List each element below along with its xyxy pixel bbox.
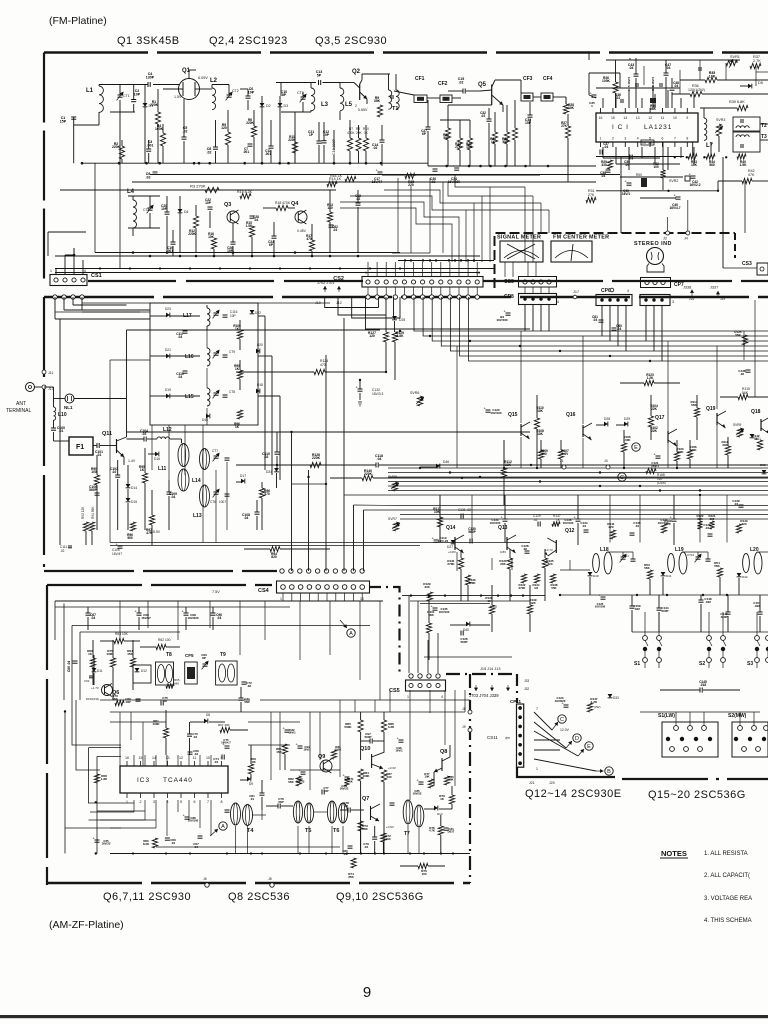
svg-text:.022: .022 [705,600,711,604]
capacitor C65 [95,839,100,841]
svg-text:220K: 220K [312,456,321,460]
resistor R15 [249,226,254,237]
svg-text:12: 12 [648,116,652,120]
svg-text:820: 820 [271,555,277,559]
capacitor C102 [115,474,120,476]
svg-text:CS3: CS3 [742,261,752,267]
svg-text:T9: T9 [220,652,226,658]
svg-text:1P: 1P [309,133,314,137]
meter enclosure box [495,233,736,288]
mid verticals to bottom [456,552,458,571]
svg-text:D24: D24 [266,470,272,474]
svg-text:16V/22: 16V/22 [296,780,305,784]
svg-text:D42: D42 [742,575,748,579]
route to CS4 [291,432,293,571]
svg-text:10K: 10K [537,409,544,413]
svg-text:16: 16 [125,756,129,760]
diode D18 [256,389,260,394]
svg-text:J703 J704 J339: J703 J704 J339 [469,693,499,698]
svg-text:16V/100: 16V/100 [496,318,508,322]
capacitor C62 [89,675,93,677]
svg-text:4: 4 [441,695,443,699]
svg-text:16V/2.2: 16V/2.2 [690,183,701,187]
svg-text:220K: 220K [112,145,121,149]
resistor R119 [725,446,730,455]
svg-text:J12: J12 [336,301,342,305]
capacitor C5 [182,136,187,138]
svg-text:CS8: CS8 [504,279,514,285]
svg-text:1.2K: 1.2K [591,700,598,704]
svg-text:2: 2 [140,800,142,804]
stereo lamp base [647,264,664,273]
shield box L15-L17 [150,303,258,425]
J9 pad [468,728,472,732]
diode D4 [178,209,183,213]
svg-text:C131 .02: C131 .02 [458,508,471,512]
svg-text:470: 470 [320,363,326,367]
resistor R32 [660,170,665,178]
capacitor C108 [255,511,260,513]
svg-text:0.65V: 0.65V [358,108,368,112]
resistors under Q5 [445,128,450,140]
svg-text:16V/100: 16V/100 [595,605,606,609]
svg-text:CT2: CT2 [232,89,239,93]
svg-text:T8: T8 [166,652,172,658]
svg-text:.02: .02 [112,470,117,474]
svg-text:L13: L13 [193,513,202,519]
middle board border bottom-left [44,570,277,572]
capacitor C71 [239,697,244,699]
resistor R12 [193,216,198,228]
resistor R25 220 [405,173,415,178]
svg-text:R62 100: R62 100 [158,638,171,642]
resistor R54 [717,568,722,577]
capacitor C72b [242,681,247,683]
connector CS1 [50,275,87,286]
svg-text:15P: 15P [60,119,67,123]
resistor R26 [613,82,618,93]
left drops [94,163,96,252]
resistor R64b [130,658,135,667]
trimmer CT2 [227,94,232,96]
resistor R28 [563,104,568,114]
resistor R99 [237,370,242,379]
svg-text:CF2: CF2 [438,81,448,87]
wires mid left to right [127,329,381,331]
svg-text:220: 220 [741,522,746,526]
svg-text:(1/2W): (1/2W) [657,481,666,485]
connector CP7 mid [640,295,670,306]
diode D2 [260,103,265,107]
svg-text:0.45V: 0.45V [297,229,307,233]
svg-text:220K: 220K [150,103,159,107]
capacitor C67c [198,835,203,837]
resistors under q13 [521,574,526,583]
border below CP11 [517,767,615,777]
diode D22 [250,310,255,314]
svg-text:R64 1K: R64 1K [330,174,343,178]
coil L5 [340,88,344,111]
svg-text:15: 15 [139,756,143,760]
resistor R29 [607,160,612,169]
switch wires [644,632,646,636]
svg-text:.022: .022 [634,607,640,611]
resistor R143 [736,524,741,533]
svg-text:10K: 10K [537,432,544,436]
capacitor C69b [188,751,193,753]
capacitor C118 [375,463,377,468]
svg-text:J32: J32 [524,687,529,691]
svg-text:16V/1: 16V/1 [622,192,631,196]
resistor R1 [155,112,160,124]
svg-text:L15: L15 [185,394,194,400]
svg-text:10K: 10K [424,775,429,779]
resistor R71 [344,778,349,786]
svg-text:.04: .04 [214,760,219,764]
svg-text:J8: J8 [462,707,466,711]
diode D28 [604,422,608,427]
svg-text:.04: .04 [629,66,634,70]
svg-text:12K: 12K [505,463,512,467]
diode D12 box [133,665,151,683]
svg-text:7.5V: 7.5V [212,590,220,594]
svg-text:.04: .04 [343,852,347,856]
svg-text:1007: 1007 [219,500,226,504]
svg-text:1. ALL RESISTA: 1. ALL RESISTA [704,851,748,857]
resistor R94 [270,546,280,551]
svg-text:20K: 20K [356,131,363,135]
svg-text:+0.7V: +0.7V [545,548,553,552]
resistor R90 [94,475,99,485]
capacitor C9 [153,171,158,173]
capacitor C70b [187,733,192,735]
svg-text:13: 13 [476,271,480,275]
svg-text:TCA440: TCA440 [163,777,193,784]
svg-text:T6: T6 [333,828,339,834]
svg-text:A: A [221,824,225,830]
svg-text:.02: .02 [459,80,464,84]
resistor R61 [163,728,168,738]
wires T row [253,814,266,816]
capacitor C110 [275,451,280,453]
capacitor C27 [426,126,431,128]
capacitor C45 [635,83,639,85]
svg-text:CT1: CT1 [123,94,130,98]
svg-text:4.7K: 4.7K [429,829,435,833]
resistor R76 [418,863,428,868]
svg-text:56P: 56P [244,700,249,704]
svg-text:Q13: Q13 [498,525,508,531]
J8 pad [468,710,472,714]
capacitor C134 [584,529,589,531]
svg-text:16V/47: 16V/47 [141,616,151,620]
resistor R2 [119,146,124,159]
capacitor C104 [143,437,145,442]
svg-text:TERMINAL: TERMINAL [6,408,32,414]
svg-text:IC3: IC3 [137,777,150,784]
switch cluster stubs up [644,612,646,632]
diode D46 [436,464,440,469]
svg-text:D29: D29 [624,417,630,421]
svg-text:9: 9 [686,116,688,120]
svg-text:560P: 560P [89,488,98,492]
capacitor C96b [211,612,216,614]
svg-text:D14: D14 [131,486,137,490]
svg-text:CP8: CP8 [504,294,514,300]
svg-text:Q9,10 2SC536G: Q9,10 2SC536G [336,891,424,903]
svg-text:.04: .04 [193,735,198,739]
svg-text:.001: .001 [243,150,249,154]
diode D3 [278,103,283,107]
svg-text:200P: 200P [661,609,668,613]
connector CS2 [362,277,483,288]
svg-text:D18: D18 [257,383,263,387]
capacitor C126 [460,631,462,636]
resistor R101 [426,623,431,633]
svg-text:100: 100 [421,872,426,876]
feed wires CS2 down fan [325,297,379,308]
resistor R96c [259,488,264,498]
svg-text:J21: J21 [529,781,535,785]
resistor R53 [647,570,652,579]
svg-text:270K: 270K [447,562,455,566]
capacitor C60 [612,327,617,329]
svg-text:1K: 1K [349,780,353,784]
svg-text:12K: 12K [530,601,536,605]
svg-text:1K: 1K [491,140,496,144]
diode D12 [135,668,140,672]
svg-text:100: 100 [541,452,547,456]
svg-text:130P: 130P [146,75,155,79]
svg-text:10P: 10P [323,789,328,793]
svg-text:.03: .03 [333,228,338,232]
svg-text:2: 2 [612,137,614,141]
resistor R114 [694,408,699,417]
svg-text:16V/100: 16V/100 [563,521,574,525]
circled E mid [632,443,640,451]
capacitor C137 [672,518,677,520]
svg-text:STEREO IND: STEREO IND [634,241,672,247]
svg-text:L10: L10 [58,412,67,418]
svg-text:Q11: Q11 [102,431,112,437]
capacitor C135 [433,607,438,609]
circled A near CS4 [347,629,355,637]
svg-text:10K: 10K [448,778,453,782]
border CS5 to CP11 [446,673,517,675]
svg-text:100K: 100K [362,774,370,778]
svg-text:16V/220: 16V/220 [555,699,566,703]
resistor R100 [237,330,242,339]
capacitor C131 [460,514,462,519]
svg-text:560K: 560K [344,725,352,729]
IC3 pin drops [133,800,135,812]
signal meter [500,241,543,262]
svg-text:D27: D27 [447,545,453,549]
rail below Q5 [382,174,540,176]
svg-text:1.5K: 1.5K [740,163,748,167]
resistor R85 [358,720,363,732]
capacitor C46 [659,83,663,85]
AM bottom rails [110,853,470,855]
svg-text:1: 1 [365,271,367,275]
svg-text:Q8 2SC536: Q8 2SC536 [228,891,290,903]
capacitor C101 [96,443,98,448]
svg-text:D4: D4 [184,210,189,214]
connector CP8 mid [519,294,557,305]
diode D31 [750,434,755,438]
svg-text:L16: L16 [185,354,194,360]
trimmer CT3 [301,96,306,98]
svg-text:SIGNAL METER: SIGNAL METER [497,235,541,241]
svg-text:Q5: Q5 [478,82,487,88]
svg-text:560P: 560P [364,735,371,739]
svg-text:C: C [560,717,564,723]
svg-text:.01: .01 [59,429,64,433]
svg-text:(AM-ZF-Platine): (AM-ZF-Platine) [49,919,124,931]
resistor R13 [327,212,332,222]
SVR2 [685,176,690,181]
pad J11 [42,370,46,374]
svg-text:Q12~14 2SC930E: Q12~14 2SC930E [525,788,622,800]
svg-text:J702 J701: J702 J701 [317,281,335,285]
svg-text:R92 12K: R92 12K [81,506,85,519]
svg-text:SVR7: SVR7 [388,517,397,521]
svg-text:120K: 120K [468,581,476,585]
svg-text:J19: J19 [720,297,725,301]
capacitor C106 [95,492,100,494]
svg-text:680: 680 [174,682,179,686]
svg-text:10K: 10K [466,145,473,149]
svg-text:56K: 56K [644,566,650,570]
capacitor C26 [231,241,236,243]
capacitor C40 [627,182,632,184]
diode D17 [241,479,245,484]
capacitor C76 [277,804,279,809]
svg-text:D20: D20 [257,343,263,347]
svg-text:10P: 10P [205,201,212,205]
connector CP7 [641,278,671,288]
AM board border top [47,584,272,586]
svg-text:.04: .04 [705,526,710,530]
pads J3 J4 on box [666,231,670,235]
resistor R80 [444,776,449,785]
svg-text:220K: 220K [364,472,373,476]
svg-text:.04: .04 [582,524,587,528]
svg-text:D3: D3 [284,104,289,108]
svg-text:D31: D31 [755,437,761,441]
svg-text:J17: J17 [573,290,579,294]
svg-text:CF1: CF1 [415,76,425,82]
svg-text:15K: 15K [276,750,282,754]
capacitor C30 [433,168,438,170]
capacitor C6 [246,95,251,97]
svg-text:.04: .04 [171,841,176,845]
svg-text:J20: J20 [549,781,555,785]
svg-text:SVR9: SVR9 [733,423,742,427]
coil L12 body [178,444,189,467]
svg-text:10P: 10P [134,92,141,96]
svg-text:D16: D16 [154,457,160,461]
svg-text:6.09V: 6.09V [198,76,208,80]
svg-text:1: 1 [536,767,538,771]
svg-text:5: 5 [180,800,182,804]
caps row above switches [630,605,635,607]
svg-text:8.2K: 8.2K [143,842,150,846]
svg-text:D11: D11 [97,669,103,673]
meter to CS8 wires [504,262,506,277]
svg-text:16V/100: 16V/100 [439,610,450,614]
resistor R84 [358,769,363,781]
dots mid [276,464,278,466]
svg-text:R39 6.8K: R39 6.8K [729,100,745,104]
CP8 pin wires [524,305,526,331]
circled letters [558,715,566,723]
svg-text:L7: L7 [706,143,714,149]
svg-text:4: 4 [627,289,629,293]
resistor R79 [449,795,454,804]
resistor R111 [437,517,442,527]
svg-text:12.0V: 12.0V [560,728,570,732]
svg-text:1.2K: 1.2K [647,376,654,380]
svg-text:56K: 56K [742,391,749,395]
svg-text:NL1: NL1 [64,405,73,410]
diode D33 [608,694,613,698]
svg-text:CT12: CT12 [687,553,694,557]
capacitor C48 [670,87,675,89]
resistor R127 [383,332,388,342]
svg-text:39K: 39K [374,99,381,103]
svg-text:14: 14 [623,116,627,120]
capacitor C34 [454,167,459,169]
svg-text:L14: L14 [192,478,201,484]
capacitor I24 [506,312,511,314]
svg-text:SVR8: SVR8 [388,475,397,479]
svg-text:J9: J9 [462,725,466,729]
svg-text:22K: 22K [651,429,658,433]
neon lamp NL1 [65,394,74,403]
svg-text:CS2: CS2 [333,276,344,282]
CS1 wires [55,269,57,275]
svg-text:480P: 480P [720,615,727,619]
svg-text:560P: 560P [460,640,467,644]
svg-text:.02: .02 [740,372,745,376]
R50 dark [641,178,647,187]
resistor R131 [458,558,463,569]
capacitor C93 [301,771,306,773]
diode D20 [256,349,260,354]
svg-text:9: 9 [363,984,371,1001]
svg-text:.04: .04 [171,495,176,499]
svg-text:16V/22: 16V/22 [340,787,349,791]
resistor R69 [248,764,253,774]
svg-text:4. THIS SCHEMA: 4. THIS SCHEMA [704,918,752,924]
capacitor C47 [664,72,669,74]
svg-text:D23: D23 [165,307,171,311]
capacitor C62 [329,224,334,226]
pads below CS2 on border [366,295,370,299]
svg-text:.04: .04 [254,218,259,222]
capacitor C12 [322,140,327,142]
diode D5 [748,84,752,89]
resistor R66 [90,658,95,667]
transistor row stubs [520,331,522,423]
svg-text:D8: D8 [206,713,210,717]
svg-text:10K: 10K [568,106,575,110]
svg-text:D41: D41 [666,574,672,578]
svg-text:CS11: CS11 [487,735,498,740]
pads below CS1 on border [53,295,57,299]
resistor R130 [465,575,470,585]
